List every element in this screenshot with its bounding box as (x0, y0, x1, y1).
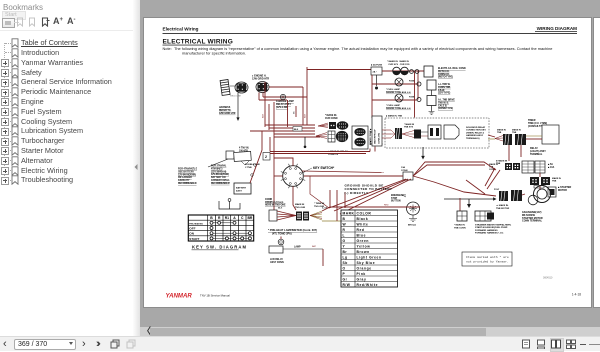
svg-text:LAMP: LAMP (294, 246, 301, 249)
svg-text:CAPACITY: CAPACITY (178, 179, 190, 182)
svg-text:White: White (357, 222, 369, 226)
svg-text:O: O (343, 266, 346, 270)
svg-text:4 TNV IN.: 4 TNV IN. (239, 147, 249, 150)
svg-text:Br: Br (343, 250, 348, 254)
svg-text:TNB: TNB (497, 132, 502, 134)
svg-text:REFER TO.: REFER TO. (219, 110, 232, 112)
svg-text:Pink: Pink (357, 272, 366, 276)
svg-text:WATER TEMP: WATER TEMP (369, 130, 372, 145)
svg-text:■ 2A FUSE: ■ 2A FUSE (371, 64, 383, 67)
svg-text:Electrical Wiring: Electrical Wiring (163, 26, 199, 31)
svg-text:Gray: Gray (357, 277, 367, 281)
svg-text:BAT: BAT (312, 245, 317, 248)
svg-text:ELECTR-CA. REG. CONN: ELECTR-CA. REG. CONN (438, 67, 466, 70)
svg-text:TNB: TNB (552, 181, 557, 183)
svg-text:Items marked with * are: Items marked with * are (466, 255, 509, 259)
svg-text:2A •: 2A • (373, 70, 377, 73)
svg-text:Blue: Blue (357, 233, 367, 237)
svg-text:BAT: BAT (262, 113, 265, 118)
svg-text:Y-TNB: Y-TNB (245, 167, 252, 169)
svg-text:Black: Black (357, 217, 369, 221)
svg-text:■ MAKE IN. TNB: ■ MAKE IN. TNB (386, 115, 403, 118)
svg-text:CONN-(TN): CONN-(TN) (379, 133, 381, 144)
svg-text:R1: R1 (225, 216, 229, 220)
svg-text:HERE IN TNO-OHE: HERE IN TNO-OHE (265, 205, 286, 207)
svg-text:BUTTON: BUTTON (391, 201, 401, 203)
svg-text:* FUEL LAMP: * FUEL LAMP (386, 88, 400, 91)
svg-text:2: 2 (265, 155, 267, 159)
svg-text:CUR CONN: CUR CONN (325, 118, 338, 120)
svg-text:TNB: TNB (512, 132, 517, 134)
svg-text:MAKE IN: MAKE IN (295, 203, 305, 206)
svg-text:RED: RED (384, 205, 389, 207)
svg-text:SOLENOID RELAY: SOLENOID RELAY (466, 126, 486, 129)
svg-text:STOP: STOP (391, 198, 398, 200)
svg-text:* PRE-HEAT LAMP/METER (Coml. 3: * PRE-HEAT LAMP/METER (Coml. 307) (268, 228, 317, 232)
svg-text:ASSY: ASSY (236, 189, 242, 192)
svg-text:LCD RELAY: LCD RELAY (270, 258, 283, 261)
svg-text:TNB CONN: TNB CONN (454, 227, 466, 229)
svg-text:12W GRID HTR: 12W GRID HTR (219, 113, 236, 115)
svg-text:0004510: 0004510 (543, 277, 553, 280)
svg-text:Sb: Sb (343, 261, 348, 265)
svg-text:CONN TN: CONN TN (328, 154, 338, 156)
svg-text:not provided by Yanmar.: not provided by Yanmar. (466, 260, 509, 264)
svg-text:HARNESS ASSY: HARNESS ASSY (466, 134, 484, 137)
svg-text:1-4-18: 1-4-18 (572, 293, 581, 297)
svg-text:B: B (343, 217, 346, 221)
svg-text:DESIRE CONN ASS L.H.: DESIRE CONN ASS L.H. (386, 91, 411, 94)
svg-text:CONN TERMINAL: CONN TERMINAL (522, 220, 543, 223)
svg-text:Yellow: Yellow (357, 244, 371, 248)
svg-text:KEY SWITCH*: KEY SWITCH* (313, 166, 335, 170)
svg-text:12W GRID HTR: 12W GRID HTR (252, 78, 269, 81)
svg-text:DOUBLE LINE: DOUBLE LINE (245, 164, 260, 166)
svg-text:Sky Blue: Sky Blue (357, 261, 376, 265)
svg-text:* MAKE IN: * MAKE IN (454, 224, 465, 227)
svg-text:WELD LINE: WELD LINE (230, 95, 241, 97)
svg-text:ASSY CONN: ASSY CONN (270, 261, 284, 264)
svg-text:Y: Y (343, 244, 346, 248)
svg-text:WATERPROOF: WATERPROOF (374, 129, 377, 144)
svg-text:4TNV84(T): 4TNV84(T) (211, 167, 223, 170)
svg-text:Light Green: Light Green (357, 255, 382, 259)
svg-text:ELECTRICAL WIRING: ELECTRICAL WIRING (163, 38, 233, 45)
svg-text:PRE-HEATING: PRE-HEATING (189, 222, 203, 225)
svg-text:A-L.TNB BRIVE: A-L.TNB BRIVE (438, 99, 455, 102)
svg-text:R/W: R/W (343, 283, 351, 287)
svg-text:TNB W. B.: TNB W. B. (438, 102, 449, 104)
svg-text:CALE B.: CALE B. (438, 104, 448, 107)
svg-text:LARGER CAPAC.: LARGER CAPAC. (211, 179, 230, 182)
svg-text:CONN TNB.: CONN TNB. (438, 87, 451, 89)
svg-text:* MAKE IN: * MAKE IN (404, 123, 415, 126)
svg-text:Lg: Lg (343, 255, 348, 259)
svg-text:FUSE: FUSE (409, 81, 415, 83)
svg-text:13A: 13A (401, 166, 405, 169)
svg-text:WIRING DIAGRAM: WIRING DIAGRAM (537, 26, 577, 31)
svg-text:▲ MAKE IN.: ▲ MAKE IN. (496, 204, 509, 207)
svg-text:RECOMMENDED: RECOMMENDED (211, 183, 230, 185)
svg-text:BK: BK (294, 111, 296, 114)
svg-text:(CONN-TYPE): (CONN-TYPE) (438, 108, 453, 110)
svg-text:F.B.W.: F.B.W. (438, 90, 445, 92)
svg-text:Gr: Gr (343, 277, 348, 281)
svg-text:* TNNE IN: * TNNE IN (314, 203, 325, 205)
svg-text:TNV 1B Service Manual: TNV 1B Service Manual (200, 294, 230, 298)
svg-text:12V-80AH(20HR): 12V-80AH(20HR) (211, 173, 229, 176)
svg-text:P: P (343, 272, 346, 276)
svg-text:BHOLA: BHOLA (408, 224, 416, 227)
svg-text:(TIMER, RELAY &: (TIMER, RELAY & (466, 131, 485, 134)
svg-text:■ 5A: ■ 5A (548, 163, 553, 166)
svg-text:MARK: MARK (343, 211, 355, 215)
svg-text:CONN-CO.: CONN-CO. (438, 74, 450, 76)
svg-text:COMB: COMB (265, 199, 272, 201)
svg-text:Brown: Brown (357, 250, 370, 254)
svg-text:RECOMMENDED: RECOMMENDED (178, 183, 197, 185)
svg-text:L: L (343, 233, 346, 237)
svg-text:ROTO-CO.: ROTO-CO. (438, 71, 450, 73)
svg-text:(12V-1.4W): (12V-1.4W) (276, 106, 288, 109)
svg-text:TERMINAL: TERMINAL (530, 153, 543, 156)
svg-text:COLOR: COLOR (357, 211, 372, 215)
svg-text:manufacturer for specific info: manufacturer for specific information. (182, 51, 246, 56)
svg-text:(12V-36/45AH): (12V-36/45AH) (211, 170, 227, 173)
svg-text:BAT: BAT (304, 113, 307, 118)
svg-text:* MAKE IN MAKE IN: * MAKE IN MAKE IN (387, 60, 409, 63)
svg-text:OR LARGER: OR LARGER (178, 176, 192, 179)
svg-text:BLK: BLK (278, 208, 283, 210)
svg-text:CONNECTION DET.: CONNECTION DET. (466, 130, 486, 132)
svg-text:TNB MOTOR: TNB MOTOR (496, 208, 510, 210)
svg-text:FORWARD HARNESS: FORWARD HARNESS (475, 229, 498, 232)
svg-text:Orange: Orange (357, 266, 372, 270)
svg-text:Red: Red (357, 228, 365, 232)
svg-text:■ 10A: ■ 10A (548, 166, 555, 169)
svg-text:BATTERY: BATTERY (236, 187, 247, 190)
svg-text:12V-64AH(20HR): 12V-64AH(20HR) (178, 173, 196, 176)
svg-text:G: G (343, 239, 346, 243)
svg-text:TNB SYS: TNB SYS (404, 127, 414, 129)
svg-text:START:SOLENOID(FUEL PUMP.: START:SOLENOID(FUEL PUMP. (475, 226, 508, 229)
svg-text:MAKE IN: MAKE IN (497, 129, 506, 132)
svg-text:FUSE: FUSE (409, 97, 415, 99)
svg-text:FOR 3TNV84L: FOR 3TNV84L (211, 165, 227, 168)
svg-text:* MAKE IN.: * MAKE IN. (325, 114, 337, 117)
svg-text:HARNESS: HARNESS (219, 106, 231, 109)
svg-text:MAKE IN: MAKE IN (552, 177, 561, 180)
svg-text:OFF: OFF (189, 227, 195, 231)
svg-text:W: W (343, 222, 347, 226)
svg-text:L-L.TNB W.: L-L.TNB W. (438, 84, 451, 86)
svg-text:USE BATTERY: USE BATTERY (178, 170, 194, 173)
svg-text:BATTERY OR: BATTERY OR (211, 176, 226, 179)
svg-text:(4TL TOMO 2PA): (4TL TOMO 2PA) (272, 233, 292, 236)
svg-text:STRAINER:WATER TEMP/ALTERN.: STRAINER:WATER TEMP/ALTERN. (475, 224, 512, 227)
svg-text:ON: ON (189, 232, 194, 236)
svg-text:CUR SYS CUR SYS: CUR SYS CUR SYS (387, 64, 410, 66)
svg-text:(-) DIRECTLY: (-) DIRECTLY (345, 191, 369, 195)
svg-text:(12V-TYPE): (12V-TYPE) (438, 93, 450, 95)
svg-text:Red/White: Red/White (357, 283, 379, 287)
svg-text:⊕ MAKE IN: ⊕ MAKE IN (496, 160, 508, 163)
svg-text:TNO-OHE: TNO-OHE (295, 207, 306, 209)
svg-text:POLY: POLY (494, 189, 500, 191)
svg-text:R: R (343, 228, 346, 232)
svg-text:MAKE IN: MAKE IN (512, 129, 521, 132)
svg-text:TERMINALS): TERMINALS) (466, 137, 480, 140)
svg-text:YANMAR: YANMAR (166, 293, 193, 300)
svg-text:LOEM 13.2 Conn: LOEM 13.2 Conn (265, 202, 284, 204)
svg-text:BLK: BLK (294, 129, 299, 131)
svg-text:START: START (189, 237, 199, 241)
svg-text:BR: BR (247, 216, 252, 220)
svg-text:(ROTO-TYPE): (ROTO-TYPE) (438, 77, 453, 79)
svg-text:CONN: CONN (401, 170, 408, 172)
svg-text:KEY SW. DIAGRAM: KEY SW. DIAGRAM (192, 245, 247, 250)
svg-text:Green: Green (357, 239, 370, 243)
svg-text:DESIRE CONN ASS L.H.: DESIRE CONN ASS L.H. (386, 107, 411, 110)
svg-text:FORWARD HARNESS-*-CO.: FORWARD HARNESS-*-CO. (475, 232, 504, 235)
svg-text:FOR 4TNV84(T)-Z: FOR 4TNV84(T)-Z (178, 168, 198, 171)
svg-text:MOTOR: MOTOR (558, 189, 567, 192)
svg-text:* FUEL LAMP: * FUEL LAMP (386, 104, 400, 107)
